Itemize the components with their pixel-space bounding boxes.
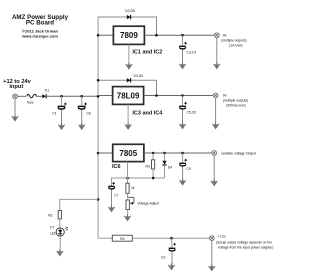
svg-text:7809: 7809 (120, 31, 138, 40)
node C2 junction (170, 237, 173, 240)
wire terminal3 down (213, 155, 215, 181)
node C9 top (181, 152, 184, 155)
node bus/bypass2 (97, 79, 100, 82)
svg-text:D2,D5: D2,D5 (125, 9, 135, 13)
wire 78L09 input (98, 95, 113, 97)
ground (C8) (79, 123, 85, 129)
node D4 top (163, 152, 166, 155)
capacitor C5,C6 (179, 96, 196, 125)
node bus/7809 input (97, 34, 100, 37)
svg-text:D1: D1 (45, 89, 49, 93)
capacitor C9 (179, 153, 191, 181)
node R3 top (152, 152, 155, 155)
regulator 78L09 box (113, 87, 144, 105)
svg-text:D7: D7 (50, 226, 54, 230)
wire bypass 2 (98, 80, 156, 95)
capacitor C2 (161, 238, 176, 265)
ground (terminal 3) (211, 179, 217, 185)
resistor R2 (48, 211, 61, 228)
ground (C5,C6) (179, 122, 185, 128)
svg-text:(multiple outputs): (multiple outputs) (223, 99, 248, 103)
svg-text:PC Board: PC Board (26, 19, 54, 26)
wire terminal1 down (216, 37, 218, 64)
potentiometer Voltage Adjust (126, 197, 159, 214)
svg-text:variable voltage Output: variable voltage Output (221, 151, 256, 155)
node bypass2/output (155, 94, 158, 97)
wire 78L09 output (144, 95, 214, 97)
node bus/input (97, 95, 100, 98)
node bus/7805 input (97, 152, 100, 155)
node C3 junction (181, 34, 184, 37)
wire 7805 output (144, 152, 212, 154)
node input junction C8 (80, 95, 83, 98)
ground (LED) (57, 249, 63, 255)
svg-text:voltage from the input power a: voltage from the input power adapter) (218, 246, 274, 250)
label 9v outputs 1 (221, 33, 246, 47)
wire 78L09 ground stub (127, 104, 129, 124)
resistor R4 (112, 235, 132, 241)
svg-text:LED: LED (50, 232, 57, 236)
wire 1k to pot (127, 193, 129, 200)
svg-text:C1: C1 (52, 112, 56, 116)
svg-text:9v: 9v (223, 94, 227, 98)
svg-text:D3,D6: D3,D6 (134, 74, 144, 78)
node R3 bottom (152, 177, 155, 180)
node input junction C1 (60, 95, 63, 98)
ground (C1) (58, 123, 64, 129)
ground (C7) (108, 205, 114, 211)
svg-text:R4: R4 (120, 237, 124, 241)
diode D2,D5 (125, 9, 135, 19)
svg-text:C2: C2 (161, 256, 165, 260)
node C5 junction (181, 94, 184, 97)
svg-text:IC6: IC6 (112, 164, 121, 170)
svg-text:IC1 and IC2: IC1 and IC2 (132, 50, 162, 56)
svg-text:+12v: +12v (218, 235, 226, 239)
svg-text:(500ma max): (500ma max) (226, 104, 245, 108)
wire terminal2 down (215, 98, 217, 125)
svg-text:www.muzique.com: www.muzique.com (21, 33, 58, 38)
regulator IC1 7809 box (113, 26, 144, 44)
wire D1 to bus (46, 95, 98, 97)
capacitor C8 (78, 96, 91, 125)
input label (3, 79, 32, 90)
svg-text:(1A max): (1A max) (229, 43, 242, 47)
diode D4 (162, 153, 172, 178)
input terminal J1 (13, 94, 18, 99)
capacitor C3,C4 (179, 35, 196, 64)
regulator 7805 box (113, 144, 144, 161)
wire input to fuse (17, 95, 26, 97)
label +12v (216, 235, 273, 250)
node bus/LED branch (97, 198, 100, 201)
wire 7805 bottom stub (127, 162, 129, 184)
svg-text:input: input (9, 84, 23, 90)
ground (terminal 1) (214, 62, 220, 68)
svg-text:C5,C6: C5,C6 (187, 111, 197, 115)
wire bottom rail right (132, 237, 209, 239)
capacitor C7 (108, 182, 118, 207)
diode D3,D6 (127, 74, 143, 83)
svg-text:(multiple outputs): (multiple outputs) (221, 38, 246, 42)
ground (pot) (124, 214, 130, 220)
wire terminal4 down (211, 240, 213, 266)
svg-text:1k: 1k (131, 186, 135, 190)
ground (C2) (168, 263, 174, 269)
svg-text:C3,C4: C3,C4 (187, 51, 197, 55)
LED D7 (50, 226, 68, 252)
wire 7809 input (98, 34, 113, 36)
capacitor C1 (52, 96, 66, 125)
diode D1 (42, 89, 49, 99)
svg-text:IC3 and IC4: IC3 and IC4 (132, 111, 163, 117)
ground (78L09) (125, 123, 131, 129)
svg-text:C9: C9 (186, 167, 190, 171)
ground (C3,C4) (179, 62, 185, 68)
wire 7809 output (144, 34, 214, 36)
output terminal +12v (209, 236, 214, 241)
svg-text:(actual output voltage depends: (actual output voltage depends on the (216, 240, 272, 244)
svg-text:78L09: 78L09 (117, 91, 140, 100)
wire 7805 adj row (112, 178, 165, 186)
ground (terminal 4) (209, 264, 215, 270)
wire LED branch (60, 199, 98, 210)
wire 7809 ground stub (128, 45, 130, 65)
wire 7805 input (98, 152, 113, 154)
wire input terminal down (14, 99, 16, 117)
ground (input) (12, 115, 18, 121)
node adj junction (126, 177, 129, 180)
svg-text:7805: 7805 (119, 149, 137, 158)
resistor 1k (126, 183, 135, 193)
wire bypass 1 top (98, 17, 156, 35)
fuse F1 (27, 94, 37, 97)
ground (C9) (179, 179, 185, 185)
resistor R3 (146, 153, 155, 178)
wire fuse to D1 (36, 95, 43, 97)
svg-text:fuse: fuse (27, 101, 34, 105)
wire main bus vertical (97, 17, 99, 238)
output terminal 9v #1 (214, 33, 219, 38)
ground (7809) (126, 63, 132, 69)
svg-text:R2: R2 (48, 213, 52, 217)
title text (12, 14, 69, 38)
wire bottom rail left (98, 237, 112, 239)
label 9v outputs 2 (223, 94, 248, 108)
svg-text:C8: C8 (86, 112, 90, 116)
ground (terminal 2) (212, 122, 218, 128)
svg-text:R3: R3 (146, 165, 150, 169)
svg-text:C7: C7 (114, 193, 118, 197)
svg-text:Voltage Adjust: Voltage Adjust (137, 202, 159, 206)
output terminal 9v #2 (213, 93, 218, 98)
output terminal variable (212, 151, 217, 156)
svg-text:D4: D4 (168, 165, 172, 169)
svg-text:9v: 9v (223, 33, 227, 37)
node bypass1/output (155, 34, 158, 37)
